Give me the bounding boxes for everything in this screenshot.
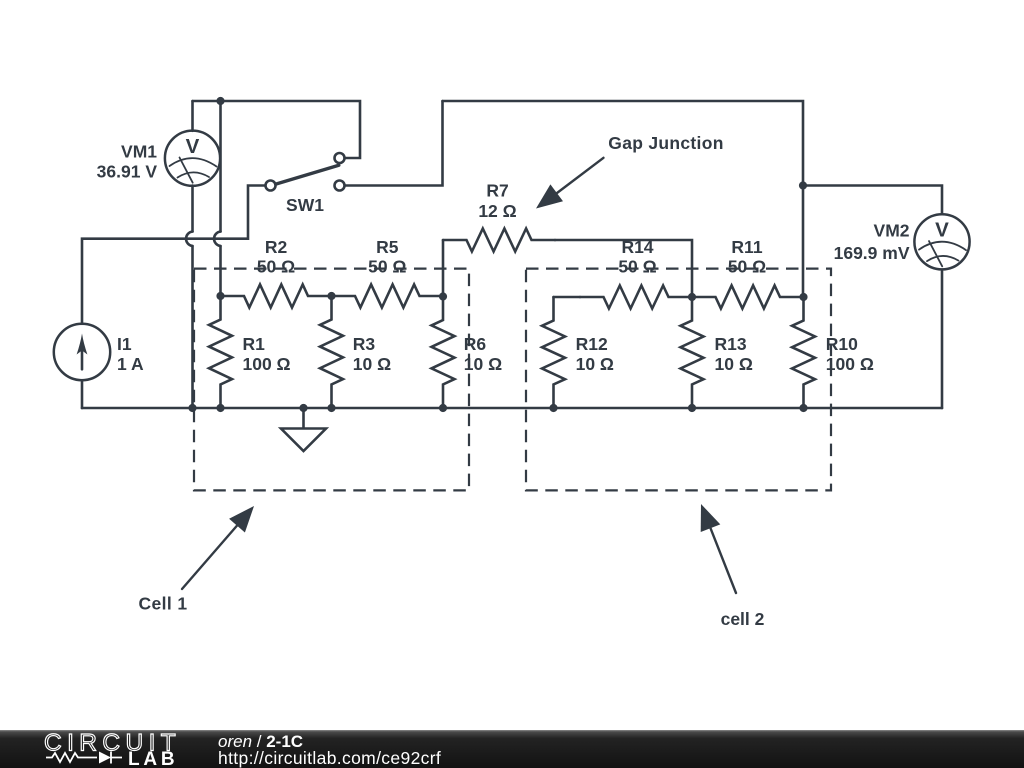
wire R12 top to R14	[554, 296, 581, 299]
switch SW1 throw contact bottom	[335, 181, 345, 191]
svg-text:SW1: SW1	[286, 195, 324, 215]
arrowhead Gap Junction	[536, 184, 563, 208]
dashed box Cell 1	[194, 269, 469, 491]
svg-text:Cell 1: Cell 1	[138, 594, 187, 614]
svg-text:R6: R6	[464, 334, 487, 354]
svg-text:169.9 mV: 169.9 mV	[834, 243, 910, 263]
wire hop arc on VM1 lead	[186, 232, 192, 247]
wire top-right horizontal	[443, 101, 804, 297]
current source I1 arrow shaft	[81, 348, 84, 369]
svg-text:10 Ω: 10 Ω	[353, 354, 391, 374]
junction node bus at R13	[688, 404, 696, 412]
junction node bus at ground	[299, 404, 307, 412]
voltmeter VM2 needle	[929, 241, 942, 266]
arrowhead cell 2	[701, 504, 721, 532]
junction node VM2 branch	[799, 181, 807, 189]
wire I1 top lead to switch pole	[82, 186, 265, 324]
svg-text:36.91 V: 36.91 V	[97, 162, 158, 182]
voltmeter VM2 scale arcs	[919, 242, 966, 250]
svg-text:10 Ω: 10 Ω	[715, 354, 753, 374]
svg-text:1 A: 1 A	[117, 354, 144, 374]
wire hop arc on main vertical	[214, 232, 220, 247]
svg-text:LAB: LAB	[128, 749, 178, 768]
wire switch throw1 to top wire2	[345, 101, 443, 186]
svg-text:R14: R14	[621, 237, 653, 257]
switch SW1 throw contact top	[335, 153, 345, 163]
svg-text:R12: R12	[576, 334, 608, 354]
svg-text:R11: R11	[731, 237, 762, 257]
wire VM1 bottom lead down to ground bus with hop over I1 wire	[191, 186, 194, 408]
switch SW1 arm	[275, 165, 339, 184]
arrowhead Cell 1	[229, 506, 254, 533]
svg-text:R10: R10	[826, 334, 858, 354]
resistor R11	[692, 286, 804, 309]
annotation arrow to cell 2 box	[711, 528, 737, 593]
wire I1 bottom lead	[81, 380, 84, 408]
ground symbol	[281, 408, 326, 451]
resistor R1	[209, 296, 232, 408]
resistor R12	[542, 297, 565, 408]
wire VM2 bottom lead	[941, 270, 944, 408]
svg-text:cell 2: cell 2	[721, 609, 765, 629]
wire R7 right lead to cell2 node	[555, 240, 692, 297]
junction node R1 top	[216, 292, 224, 300]
junction node R3 top	[327, 292, 335, 300]
svg-text:100 Ω: 100 Ω	[243, 354, 291, 374]
svg-text:R3: R3	[353, 334, 376, 354]
logo diode symbol	[99, 752, 111, 764]
svg-text:http://circuitlab.com/ce92crf: http://circuitlab.com/ce92crf	[218, 748, 441, 768]
svg-text:50 Ω: 50 Ω	[618, 256, 656, 276]
voltmeter VM1 scale arcs	[170, 158, 217, 166]
wire ground bus	[82, 407, 942, 410]
junction node bus at VM1 lead	[188, 404, 196, 412]
resistor R7	[443, 229, 555, 252]
svg-text:R13: R13	[715, 334, 747, 354]
svg-text:Gap Junction: Gap Junction	[608, 133, 723, 153]
logo resistor squiggle	[46, 753, 97, 762]
svg-text:50 Ω: 50 Ω	[728, 256, 766, 276]
junction node bus at R6	[439, 404, 447, 412]
svg-text:V: V	[935, 218, 949, 241]
wire top-left horizontal from VM1 top to switch top branch	[193, 101, 361, 158]
wire main vertical from top wire to R1 top with hop	[219, 101, 222, 296]
svg-text:10 Ω: 10 Ω	[464, 354, 502, 374]
resistor R3	[320, 296, 343, 408]
voltmeter VM2 body	[914, 214, 969, 269]
junction node R13 top	[688, 293, 696, 301]
junction node R6 top	[439, 292, 447, 300]
junction node bus at R10	[799, 404, 807, 412]
junction node bus at R3	[327, 404, 335, 412]
svg-text:10 Ω: 10 Ω	[576, 354, 614, 374]
svg-text:R7: R7	[486, 181, 508, 201]
wire VM1 top lead	[191, 101, 194, 131]
resistor R2	[221, 285, 332, 308]
wire R7 left lead down to node	[442, 240, 445, 297]
voltmeter VM1 needle	[180, 158, 193, 183]
current source I1 body	[54, 324, 110, 380]
annotation arrow to Cell 1 box	[182, 526, 237, 589]
svg-text:I1: I1	[117, 334, 132, 354]
resistor R14	[580, 286, 692, 309]
svg-text:12 Ω: 12 Ω	[478, 201, 516, 221]
junction node on top wire at main vertical	[216, 97, 224, 105]
junction node bus at R1	[216, 404, 224, 412]
footer bar background	[0, 730, 1024, 768]
svg-text:R5: R5	[376, 237, 399, 257]
resistor R13	[681, 297, 704, 408]
voltmeter VM1 body	[165, 131, 220, 186]
junction node bus at R12	[549, 404, 557, 412]
resistor R10	[792, 297, 815, 408]
svg-text:100 Ω: 100 Ω	[826, 354, 874, 374]
svg-text:50 Ω: 50 Ω	[257, 256, 295, 276]
junction node R10 top	[799, 293, 807, 301]
svg-text:VM2: VM2	[874, 221, 910, 241]
wire VM2 branch	[803, 186, 942, 215]
switch SW1 pole contact	[266, 181, 276, 191]
svg-text:50 Ω: 50 Ω	[368, 256, 406, 276]
resistor R6	[432, 297, 455, 409]
annotation arrow to Gap Junction (R7)	[557, 158, 604, 193]
svg-text:R2: R2	[265, 237, 288, 257]
svg-text:V: V	[186, 135, 200, 158]
svg-text:VM1: VM1	[121, 141, 157, 161]
svg-text:R1: R1	[243, 334, 266, 354]
resistor R5	[332, 285, 444, 308]
dashed box cell 2	[526, 269, 831, 491]
current source I1 arrowhead	[77, 334, 88, 355]
